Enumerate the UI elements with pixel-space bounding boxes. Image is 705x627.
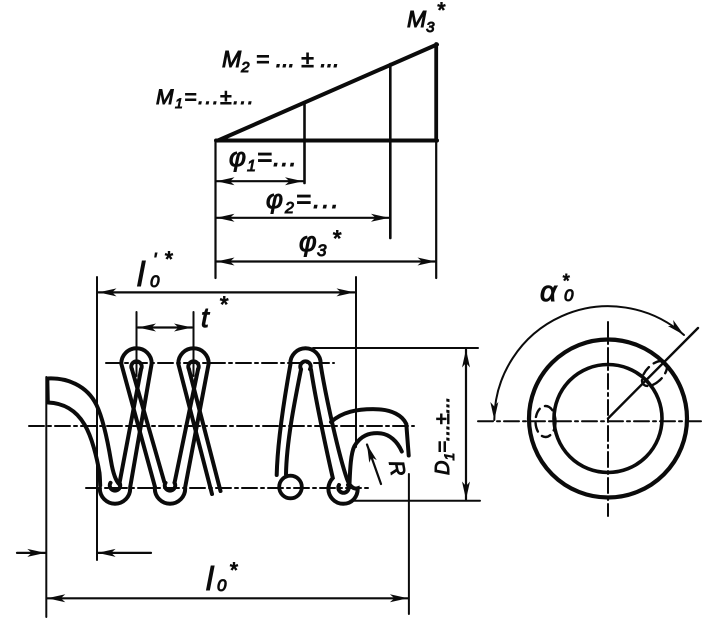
t* extension tick right (193, 312, 195, 376)
spring ascending band coil2 (175, 365, 209, 488)
svg-text:*: * (562, 271, 570, 291)
svg-text:t: t (201, 302, 210, 333)
extension line l0 prime right (355, 277, 357, 447)
spring left arm (48, 378, 120, 485)
spring ascending band coil1 (120, 365, 152, 488)
svg-text:φ: φ (299, 227, 317, 257)
svg-text:0: 0 (150, 272, 160, 291)
moment diagram right edge (434, 44, 438, 141)
end view vertical center line (607, 322, 609, 516)
dashed wire end ellipse on diagonal (638, 357, 672, 391)
svg-text:M2 = ... ± ...: M2 = ... ± ... (222, 46, 339, 76)
dimension D1 extension top (313, 347, 478, 349)
moment diagram diagonal M line (218, 45, 437, 141)
svg-text:α: α (540, 276, 558, 308)
svg-text:*: * (164, 248, 173, 271)
label alpha0 (540, 271, 574, 308)
extension line l0 right (408, 474, 410, 614)
label l0 prime (137, 248, 173, 294)
dimension l0 (overall length) (47, 597, 408, 599)
spring descending band to break (179, 365, 221, 495)
spring bottom turn B2 (338, 485, 348, 493)
dashed wire end ellipse left (536, 406, 556, 437)
label phi3 (299, 226, 342, 260)
dimension l0 prime (upper free length) (99, 291, 355, 293)
label M2 (222, 46, 339, 76)
extension line arm left (45, 377, 47, 617)
label t (201, 292, 229, 333)
spring ascending band right coil (277, 365, 301, 476)
svg-text:M1=...±...: M1=...±... (156, 86, 255, 111)
extension line l0 prime left (96, 277, 98, 560)
svg-text:M3*: M3* (407, 0, 446, 36)
spring right arm with R bend (331, 409, 409, 484)
dimension D1 extension bottom (351, 500, 480, 502)
extension line right of phi dimensions (435, 141, 437, 278)
alpha0 angle arc (494, 306, 684, 420)
R leader arrow (367, 445, 381, 485)
end view inner circle (554, 365, 662, 473)
dimension t (138, 326, 192, 328)
svg-text:*: * (332, 226, 342, 251)
extension line left of phi dimensions (214, 140, 216, 278)
end view horizontal center line (478, 420, 701, 422)
dimension D1 (465, 350, 467, 500)
label D1 (432, 397, 457, 475)
label l0 (206, 559, 238, 597)
svg-text:0: 0 (217, 576, 227, 595)
dimension arm offset (small) (17, 552, 151, 554)
ordinate line at phi2 (389, 64, 392, 238)
ordinate line at phi1 (303, 102, 306, 183)
svg-text:l: l (137, 256, 146, 294)
spring top turn T3 (290, 348, 320, 369)
label R (384, 459, 409, 478)
wire end diagonal line (608, 328, 698, 419)
spring top turn T1 (121, 348, 151, 369)
spring descending band coil1 (122, 365, 165, 488)
svg-text:*: * (229, 559, 238, 582)
label M3 (407, 0, 446, 36)
spring axis center line (29, 425, 414, 427)
spring bottom turn B0 (100, 483, 130, 504)
moment diagram baseline (216, 139, 437, 143)
svg-text:φ1=...: φ1=... (229, 142, 298, 175)
dimension phi1 (217, 180, 304, 182)
top coil center line (106, 362, 334, 364)
label phi2 (266, 184, 341, 217)
svg-text:D1=...±...: D1=...±... (432, 397, 457, 475)
label phi1 (229, 142, 298, 175)
svg-text:': ' (153, 250, 157, 270)
svg-text:φ2=...: φ2=... (266, 184, 341, 217)
end view outer circle (529, 340, 687, 498)
spring descending band right coil (311, 365, 358, 504)
bottom coil center line (86, 487, 368, 489)
t* extension tick left (136, 312, 138, 376)
dimension phi3 (217, 260, 436, 262)
dimension phi2 (217, 217, 390, 219)
svg-text:3: 3 (317, 241, 327, 260)
svg-text:R: R (384, 459, 409, 478)
label M1 (156, 86, 255, 111)
spring top turn T2 (178, 348, 208, 369)
svg-text:l: l (206, 560, 215, 597)
spring bottom turn B1 (155, 483, 185, 504)
wire break cross-section circle (279, 476, 302, 499)
svg-text:*: * (219, 292, 229, 317)
